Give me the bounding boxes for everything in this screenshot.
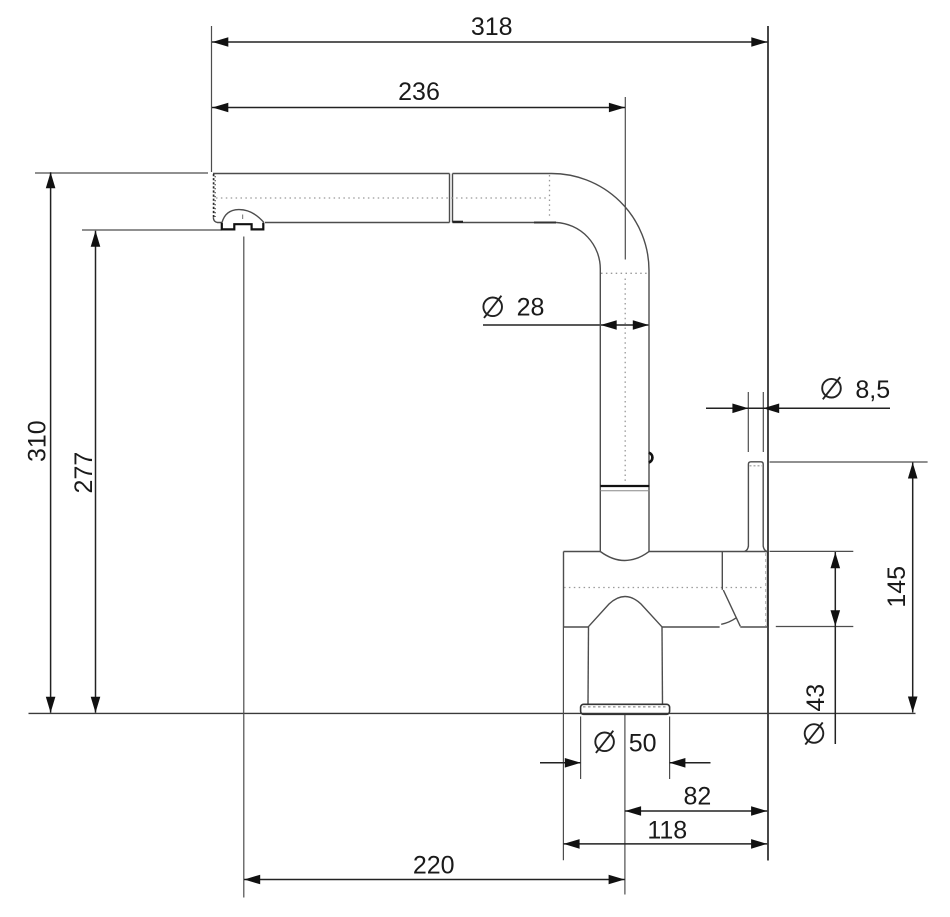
- svg-text:236: 236: [398, 78, 440, 106]
- svg-text:310: 310: [23, 420, 51, 462]
- svg-text:118: 118: [647, 817, 687, 845]
- svg-text:28: 28: [517, 293, 545, 321]
- svg-text:8,5: 8,5: [855, 376, 890, 404]
- svg-text:318: 318: [471, 13, 513, 41]
- svg-text:145: 145: [883, 566, 911, 608]
- svg-text:277: 277: [70, 452, 98, 494]
- svg-text:43: 43: [802, 684, 830, 712]
- svg-text:82: 82: [683, 782, 711, 810]
- svg-text:220: 220: [413, 851, 455, 879]
- svg-text:50: 50: [629, 730, 657, 758]
